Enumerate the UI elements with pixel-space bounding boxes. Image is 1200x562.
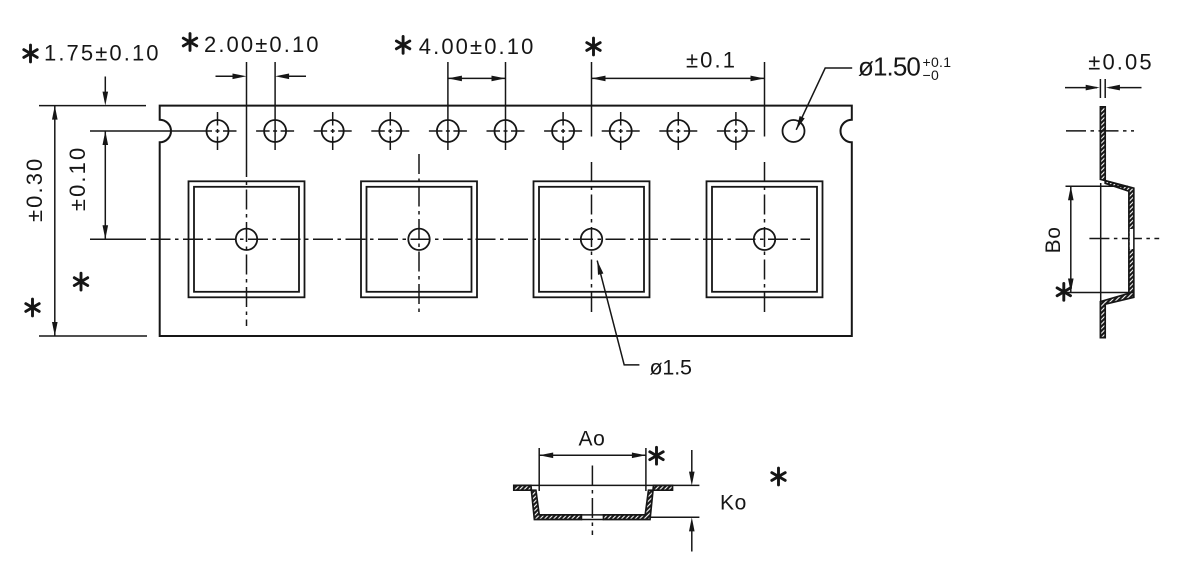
asterisk near Bo bbox=[1057, 283, 1070, 300]
asterisk right of Ko bbox=[772, 468, 785, 485]
pocket 4 square bbox=[707, 181, 823, 297]
Ao extension line left bbox=[538, 448, 540, 491]
leader o1.5 to pocket hole bbox=[597, 261, 639, 365]
asterisk near 2.00 bbox=[183, 34, 196, 51]
asterisk left area 2 bbox=[26, 299, 39, 316]
svg-text:ø1.50: ø1.50 bbox=[858, 52, 920, 82]
asterisk left area 1 bbox=[74, 273, 87, 290]
sprocket hole crosshairs bbox=[90, 112, 755, 150]
asterisk above pocket 3 centerline bbox=[587, 38, 600, 55]
Ko bottom extension line bbox=[650, 516, 699, 518]
top surface line bbox=[514, 484, 700, 486]
asterisk near Ao bbox=[650, 447, 663, 464]
svg-text:Ko: Ko bbox=[720, 491, 747, 514]
Ao extension line right bbox=[645, 448, 647, 491]
svg-text:±0.10: ±0.10 bbox=[65, 146, 90, 211]
pocket 4 vertical centerline bbox=[764, 62, 766, 137]
thickness dimension arrows bbox=[1065, 87, 1097, 89]
svg-text:2.00±0.10: 2.00±0.10 bbox=[204, 32, 321, 57]
carrier tape outline with edge notches bbox=[160, 106, 852, 336]
side view tape band (hatched) bbox=[1100, 107, 1133, 338]
extension line tape top edge bbox=[39, 105, 146, 107]
Bo dimension line bbox=[1070, 186, 1072, 292]
sprocket hole 5 extension line (4.00 dim) bbox=[447, 62, 449, 150]
svg-text:±0.05: ±0.05 bbox=[1088, 49, 1153, 74]
dimension 4.00+-0.10 bbox=[448, 77, 506, 79]
pocket 3 vertical centerline bbox=[591, 62, 593, 137]
svg-text:±0.30: ±0.30 bbox=[22, 157, 47, 222]
pocket section left band (hatched) bbox=[514, 485, 582, 519]
pocket 1 square bbox=[189, 181, 305, 297]
sprocket hole 6 extension line (4.00 dim) bbox=[505, 62, 507, 150]
asterisk near 1.75 bbox=[24, 45, 37, 62]
Bo extension line top bbox=[1066, 185, 1129, 187]
Ko top arrow bbox=[691, 450, 693, 473]
pocket 2 vertical centerline bbox=[418, 154, 420, 314]
bottom hole gap lines bbox=[581, 514, 603, 516]
svg-text:1.75±0.10: 1.75±0.10 bbox=[44, 40, 161, 65]
pocket 1 vertical centerline bbox=[246, 62, 248, 157]
svg-text:Ao: Ao bbox=[579, 427, 606, 450]
dimension 2.00+-0.10 arrows bbox=[216, 75, 235, 77]
asterisk near 4.00 bbox=[396, 37, 409, 54]
svg-text:4.00±0.10: 4.00±0.10 bbox=[419, 34, 536, 59]
pocket section right band (hatched) bbox=[604, 485, 673, 519]
extension line tape bottom edge bbox=[39, 335, 147, 337]
plain sprocket hole (dimensioned o1.50) bbox=[783, 120, 805, 142]
hatch break in pocket wall at centerline bbox=[1130, 229, 1133, 249]
side view pocket centerline bbox=[1089, 238, 1159, 240]
tape surface edge seen through pocket bbox=[1100, 183, 1102, 301]
extension line pocket center level bbox=[90, 238, 146, 240]
horizontal pocket centerline bbox=[118, 238, 810, 240]
dimension +-0.10 (F) line bbox=[104, 131, 106, 239]
Bo extension line bottom bbox=[1066, 292, 1135, 294]
sprocket hole row circles bbox=[207, 120, 747, 142]
dimension +-0.1 (pocket pitch) bbox=[592, 77, 765, 79]
thickness extension ticks bbox=[1099, 79, 1101, 98]
dimension +-0.30 (tape width) line bbox=[54, 106, 56, 336]
sprocket hole 2 extension line (2.00 dim) bbox=[274, 62, 276, 150]
pocket 2 square bbox=[361, 181, 477, 297]
side view sprocket row centerline bbox=[1066, 130, 1134, 132]
svg-text:±0.1: ±0.1 bbox=[686, 47, 737, 72]
Ao dimension line bbox=[539, 454, 646, 456]
svg-text:−0: −0 bbox=[923, 67, 940, 83]
bottom view pocket centerline bbox=[591, 466, 593, 536]
pocket 3 square bbox=[534, 181, 650, 297]
Ko bottom arrow bbox=[691, 531, 693, 552]
leader o1.50 to plain hole bbox=[796, 68, 852, 130]
svg-text:Bo: Bo bbox=[1042, 226, 1065, 253]
svg-text:ø1.5: ø1.5 bbox=[650, 356, 692, 380]
dimension 1.75+-0.10 arrow bbox=[104, 77, 106, 94]
